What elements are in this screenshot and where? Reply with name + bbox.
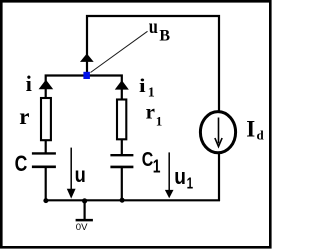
wire: bottom bus (45, 199, 220, 201)
svg-text:1: 1 (153, 157, 161, 177)
svg-text:i: i (139, 75, 146, 96)
svg-text:I: I (246, 117, 255, 142)
svg-text:i: i (26, 71, 32, 96)
svg-text:r: r (19, 104, 29, 129)
resistor r1 (117, 100, 126, 140)
svg-text:1: 1 (156, 114, 163, 129)
voltage arrow u (67, 148, 76, 199)
svg-text:r: r (146, 100, 155, 124)
wire: middle horizontal bus with corners down to resistors (46, 76, 122, 100)
svg-text:u: u (75, 163, 86, 187)
junction: left end of bottom bus (43, 198, 48, 203)
voltage arrow u1 (165, 152, 174, 198)
node uB (blue node) (83, 72, 90, 79)
label C1 (142, 147, 161, 177)
capacitor C (32, 153, 56, 166)
svg-text:B: B (159, 28, 170, 45)
label i1 (139, 75, 155, 100)
svg-text:1: 1 (148, 85, 155, 100)
svg-text:C: C (142, 147, 154, 170)
wire: capacitor C1 to bottom bus (121, 168, 123, 200)
label r1 (146, 100, 163, 129)
arrow i1 (current into branch r1) (115, 80, 129, 89)
wire: current source to bottom bus (218, 153, 220, 201)
wire: node uB stem up, top wire, right drop to current source (87, 16, 219, 113)
svg-text:d: d (257, 127, 265, 142)
label Id (246, 117, 264, 143)
svg-text:u: u (174, 165, 186, 190)
leader line from uB label to blue node (91, 31, 148, 72)
label u1 (174, 165, 193, 192)
svg-text:1: 1 (187, 175, 194, 192)
wire: resistor r1 to capacitor C1 (121, 140, 123, 155)
current source Id (200, 112, 235, 153)
junction: ground tap (82, 198, 87, 203)
arrow i (current into branch r) (39, 80, 54, 90)
junction: branch C1 at bottom bus (120, 198, 125, 203)
capacitor C1 (110, 155, 133, 167)
svg-text:0V: 0V (76, 222, 88, 233)
ground (0V) (76, 200, 93, 220)
wire: resistor r to capacitor C (45, 140, 47, 153)
svg-text:C: C (15, 152, 28, 176)
wire: capacitor C to bottom bus (45, 168, 47, 200)
arrow (current direction) on uB stem (80, 54, 94, 62)
resistor r (41, 98, 51, 140)
svg-text:u: u (149, 16, 158, 38)
